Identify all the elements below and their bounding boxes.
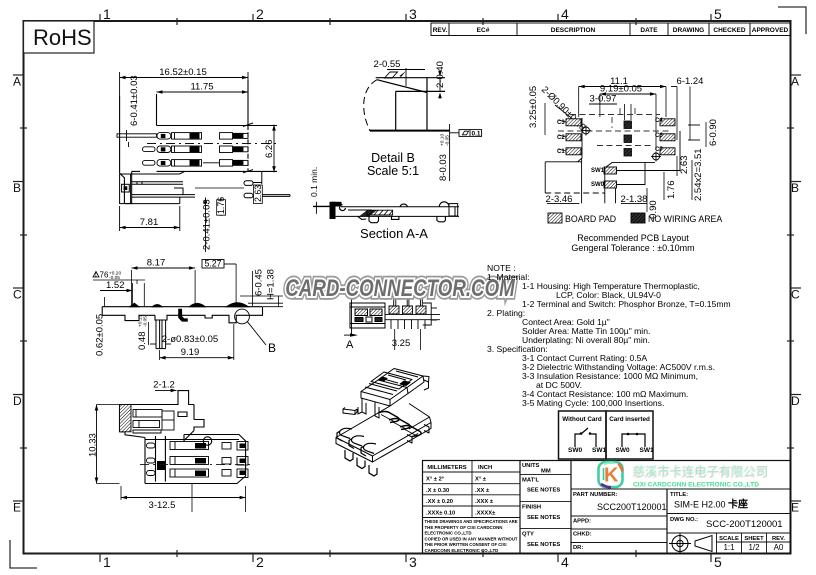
dimension 2-1.2: [153, 380, 176, 393]
svg-text:0.48: 0.48: [137, 332, 148, 351]
dimension 8.17: [132, 258, 196, 307]
svg-text:A: A: [791, 75, 799, 89]
dimension 8-0.03 vertical: [438, 134, 451, 181]
svg-text:2.54x2=3.51: 2.54x2=3.51: [693, 148, 704, 201]
B balloon: [235, 309, 276, 355]
top view left contact row 2: [143, 146, 249, 153]
svg-text:1/2: 1/2: [748, 543, 760, 552]
third angle projection symbol: [669, 534, 712, 554]
detail B label: [367, 151, 419, 178]
dimension 6-1.24: [671, 76, 703, 140]
svg-text:1: 1: [94, 273, 97, 279]
svg-text:Gengeral Tolerance : ±0.10m: Gengeral Tolerance : ±0.10mm: [571, 243, 694, 253]
svg-text:5: 5: [714, 6, 722, 22]
svg-text:-0.05: -0.05: [143, 316, 149, 327]
bottom view body outline: [120, 391, 246, 484]
svg-text:B: B: [791, 181, 799, 195]
svg-text:3.25±0.05: 3.25±0.05: [528, 86, 539, 128]
svg-text:UNITS: UNITS: [522, 463, 540, 469]
svg-text:6-0.90: 6-0.90: [708, 119, 719, 146]
dimension 1.76 boxed: [216, 197, 226, 216]
svg-text:1:1: 1:1: [723, 543, 735, 552]
svg-text:DRAWING: DRAWING: [673, 27, 704, 34]
zone column ticks bottom: [100, 550, 711, 562]
svg-text:3-12.5: 3-12.5: [149, 500, 176, 511]
svg-text:A: A: [346, 339, 354, 351]
svg-text:E: E: [13, 501, 21, 515]
svg-text:INCH: INCH: [478, 465, 492, 471]
end view contacts: [385, 292, 440, 330]
end view housing block: [350, 303, 385, 328]
svg-text:X° ± 2°: X° ± 2°: [426, 477, 445, 483]
svg-text:2.63: 2.63: [253, 185, 263, 202]
svg-text:SIM-E H2.00 卡座: SIM-E H2.00 卡座: [674, 498, 748, 511]
dimension 5.27 boxed: [202, 259, 236, 307]
svg-text:DWG NO.:: DWG NO.:: [670, 517, 698, 523]
isometric housing block: [361, 369, 429, 407]
svg-text:Section A-A: Section A-A: [360, 226, 428, 241]
svg-text:DESCRIPTION: DESCRIPTION: [551, 27, 596, 34]
revision table: [431, 23, 791, 36]
svg-text:B: B: [268, 341, 276, 355]
legal fine print: [425, 519, 518, 553]
svg-text:Scale 5:1: Scale 5:1: [367, 164, 419, 178]
svg-text:Detail B: Detail B: [371, 151, 415, 165]
svg-text:K: K: [604, 465, 619, 487]
dimension 10.33 vertical: [88, 405, 120, 484]
svg-text:CHKD:: CHKD:: [573, 532, 592, 538]
svg-text:4: 4: [561, 554, 569, 570]
svg-text:THE PRIOR WRITTEN CONSENT OF C: THE PRIOR WRITTEN CONSENT OF CIXI: [425, 542, 507, 547]
notes text block: [487, 263, 731, 408]
svg-text:SW0: SW0: [568, 447, 582, 454]
isometric housing feet: [343, 398, 379, 418]
svg-text:RoHS: RoHS: [33, 25, 92, 50]
svg-text:DATE: DATE: [640, 27, 658, 34]
dimension 2.63 boxed: [253, 185, 263, 204]
svg-text:.XXXX±: .XXXX±: [475, 511, 496, 517]
svg-text:C4: C4: [655, 118, 663, 124]
svg-text:-0.05: -0.05: [445, 135, 451, 146]
zone column ticks top: [100, 14, 711, 25]
dimension 2-Ø0.83±0.05: [150, 334, 218, 345]
part number col3: [571, 489, 791, 543]
svg-text:0.1: 0.1: [472, 130, 481, 137]
svg-text:EC#: EC#: [477, 27, 490, 34]
svg-text:2-1.2: 2-1.2: [153, 380, 175, 391]
dimension 0.90 vertical: [647, 188, 659, 222]
svg-text:MM: MM: [541, 469, 551, 475]
svg-text:1-2 Terminal and Switch: Phosp: 1-2 Terminal and Switch: Phosphor Bronze…: [522, 299, 731, 309]
svg-text:THE PROPERTY OF CIXI CARDCONN: THE PROPERTY OF CIXI CARDCONN: [425, 525, 503, 530]
title col4: [667, 514, 791, 554]
front view clip hook: [179, 309, 188, 321]
company logo: [599, 462, 623, 488]
section A-A body: [330, 202, 459, 223]
svg-text:BOARD PAD: BOARD PAD: [565, 214, 616, 224]
svg-text:C: C: [791, 288, 800, 302]
front view top bumps: [130, 303, 248, 307]
svg-text:3-0.97: 3-0.97: [590, 94, 617, 105]
PCB layout caption: [571, 233, 694, 253]
switch symbol without card (open): [575, 428, 596, 447]
svg-text:6-0.45: 6-0.45: [254, 269, 265, 296]
svg-text:DR:: DR:: [573, 545, 583, 551]
PCB pads left column: [557, 119, 581, 155]
svg-text:0.1 min.: 0.1 min.: [309, 167, 319, 197]
svg-text:CIXI CARDCONN ELECTRONIC CO.,L: CIXI CARDCONN ELECTRONIC CO.,LTD: [633, 482, 759, 489]
svg-text:D: D: [791, 394, 800, 408]
dimension 2.54x2=3.51 vertical: [692, 148, 704, 201]
svg-text:1: 1: [103, 6, 111, 22]
dimension 2-0.41±0.03 vertical: [202, 198, 213, 253]
dimension 7.81: [120, 206, 180, 231]
PCB datum circles: [581, 126, 661, 162]
svg-text:MAT'L: MAT'L: [522, 478, 540, 484]
svg-text:0.62±0.05: 0.62±0.05: [95, 314, 106, 356]
bottom view upper-left switch detail: [120, 405, 175, 434]
svg-text:X° ±: X° ±: [475, 477, 487, 483]
zone column labels bottom: [103, 554, 722, 570]
svg-text:SW0: SW0: [616, 447, 630, 454]
zone row labels left: [13, 75, 22, 515]
svg-text:REV.: REV.: [433, 27, 448, 34]
svg-text:E: E: [791, 501, 799, 515]
bottom view centerline: [140, 464, 252, 466]
svg-text:SEE NOTES: SEE NOTES: [527, 488, 560, 494]
svg-text:FINISH: FINISH: [522, 505, 541, 511]
isometric middle contacts: [378, 412, 421, 437]
flatness feature control frame: [450, 124, 482, 181]
dimension 1.52: [100, 280, 144, 306]
dimension 6-0.41±0.03 vertical: [127, 75, 141, 147]
svg-text:ELECTRONIC CO.,LTD: ELECTRONIC CO.,LTD: [425, 531, 472, 536]
svg-text:C: C: [13, 288, 22, 302]
legend board pad: [548, 213, 616, 224]
svg-text:6.26: 6.26: [264, 140, 275, 159]
svg-text:SCC200T120001: SCC200T120001: [597, 502, 667, 512]
dimension 6.26: [264, 125, 276, 173]
svg-text:.XX ± 0.20: .XX ± 0.20: [426, 499, 453, 505]
dimension 3-0.97: [589, 94, 631, 121]
dimension H=1.38 vertical: [240, 269, 283, 307]
svg-text:Without Card: Without Card: [562, 416, 602, 423]
svg-text:1.76: 1.76: [216, 197, 226, 214]
note 0.76 with triangle: [93, 271, 145, 285]
top view left contact row 3: [143, 160, 249, 167]
svg-text:SW1: SW1: [640, 447, 654, 454]
dimension 2-Ø0.90 diagonal: [539, 84, 588, 133]
dimension 2.63 vertical: [677, 156, 690, 177]
svg-text:SCALE: SCALE: [719, 536, 739, 542]
svg-text:1.76: 1.76: [666, 181, 677, 200]
svg-text:.XX ±: .XX ±: [475, 488, 490, 494]
svg-text:MILLIMETERS: MILLIMETERS: [427, 465, 466, 471]
dimension 2-1.38: [621, 194, 648, 205]
dimension 11.1: [579, 76, 666, 117]
top view housing outline: [120, 80, 277, 204]
svg-text:D: D: [13, 394, 22, 408]
title block: [423, 461, 791, 554]
svg-text:3-5 Mating Cycle: 100,000 Inse: 3-5 Mating Cycle: 100,000 Insertions.: [522, 398, 664, 408]
legend no wiring area: [631, 213, 722, 224]
svg-text:7.81: 7.81: [140, 217, 159, 228]
dimension 6-0.90 vertical: [706, 119, 719, 147]
dimension 2-0.40 vertical: [435, 61, 446, 98]
zone column labels top: [103, 6, 722, 22]
dimension 6-0.45 vertical: [253, 269, 265, 306]
dimension 0.62±0.05 vertical: [95, 297, 111, 356]
svg-text:6-1.24: 6-1.24: [677, 76, 704, 87]
units col2: [520, 475, 571, 529]
svg-text:B: B: [13, 181, 21, 195]
svg-text:5: 5: [714, 554, 722, 570]
PCB pads right column: [655, 118, 675, 155]
dimension 16.52±0.15: [120, 67, 248, 96]
svg-text:REV.: REV.: [772, 536, 785, 542]
isometric left fingers: [337, 428, 377, 476]
PCB dashed card outline: [558, 108, 672, 146]
dimension 2-0.55: [374, 59, 425, 86]
svg-text:SW0: SW0: [591, 182, 605, 188]
svg-text:A0: A0: [774, 543, 784, 552]
svg-text:PART NUMBER:: PART NUMBER:: [573, 492, 617, 498]
svg-text:2-0.41±0.03: 2-0.41±0.03: [202, 199, 213, 250]
zone row ticks left: [13, 75, 27, 501]
svg-text:SHEET: SHEET: [744, 536, 764, 542]
svg-text:SEE NOTES: SEE NOTES: [527, 515, 560, 521]
svg-text:6-0.41±0.03: 6-0.41±0.03: [129, 75, 140, 126]
dimension 2-3.46: [546, 194, 580, 205]
svg-text:SCC-200T120001: SCC-200T120001: [706, 519, 783, 530]
svg-text:1.52: 1.52: [106, 280, 125, 291]
svg-text:2-0.55: 2-0.55: [374, 59, 401, 70]
svg-text:4: 4: [561, 6, 569, 22]
svg-text:COPIED OR USED IN ANY MANNER W: COPIED OR USED IN ANY MANNER WITHOUT: [425, 536, 518, 541]
dimension 9.19±0.05: [600, 84, 656, 151]
zone row ticks right: [787, 75, 801, 501]
svg-text:TITLE:: TITLE:: [670, 492, 688, 498]
svg-text:8-0.03: 8-0.03: [438, 154, 449, 181]
svg-text:SEE NOTES: SEE NOTES: [527, 542, 560, 548]
svg-text:.X ± 0.30: .X ± 0.30: [426, 488, 449, 494]
RoHS box: [24, 21, 95, 53]
section hatched block: [359, 210, 393, 216]
PCB SW pads: [591, 167, 617, 188]
svg-text:2. Plating:: 2. Plating:: [487, 308, 525, 318]
svg-text:C6: C6: [655, 133, 663, 139]
svg-text:76: 76: [100, 271, 109, 280]
svg-text:APPD:: APPD:: [573, 519, 591, 525]
dimension 3.25±0.05 vertical: [528, 86, 575, 135]
svg-text:2: 2: [256, 554, 264, 570]
svg-text:5.27: 5.27: [204, 259, 221, 269]
PCB center no-wiring pads: [624, 121, 632, 156]
svg-text:Recommended PCB Layout: Recommended PCB Layout: [577, 233, 689, 243]
dimension 9.19 front: [160, 324, 234, 360]
zone row labels right: [791, 75, 800, 515]
svg-text:11.75: 11.75: [190, 82, 213, 93]
section cutting line A: [344, 292, 358, 351]
svg-text:Card inserted: Card inserted: [609, 416, 650, 423]
svg-text:H=1.38: H=1.38: [266, 269, 277, 300]
svg-text:16.52±0.15: 16.52±0.15: [159, 67, 206, 78]
svg-text:CARDCONN ELECTRONIC CO.,LTD: CARDCONN ELECTRONIC CO.,LTD: [425, 548, 499, 553]
svg-text:2.63: 2.63: [679, 156, 690, 175]
svg-text:.XXX ±: .XXX ±: [475, 499, 494, 505]
svg-text:THESE DRAWINGS AND SPECIFICATI: THESE DRAWINGS AND SPECIFICATIONS ARE: [425, 519, 518, 524]
svg-text:QTY: QTY: [522, 532, 534, 538]
svg-text:2: 2: [256, 6, 264, 22]
isometric lower slab: [336, 404, 431, 463]
svg-text:3: 3: [409, 554, 417, 570]
dimension 3.25 end view: [392, 329, 421, 350]
0.1 min note: [309, 167, 330, 214]
front view body: [102, 307, 262, 323]
dimension 11.75: [157, 82, 249, 94]
dimension 1.76 vertical: [664, 172, 677, 200]
front view pins: [156, 320, 166, 349]
svg-text:.XXX± 0.10: .XXX± 0.10: [426, 511, 455, 517]
dimension 0.48 vertical: [137, 315, 149, 350]
dimension 3-12.5: [121, 484, 246, 513]
svg-text:1: 1: [103, 554, 111, 570]
svg-text:2-ø0.83±0.05: 2-ø0.83±0.05: [162, 334, 218, 345]
watermark CARD-CONNECTOR.COM: [285, 275, 515, 302]
svg-text:SW1: SW1: [592, 447, 606, 454]
svg-text:NO WIRING AREA: NO WIRING AREA: [648, 214, 722, 224]
switch symbol card inserted (closed): [622, 434, 645, 447]
svg-text:SW1: SW1: [591, 168, 605, 174]
PCB solid outline: [545, 118, 700, 203]
switch state boxes: [559, 411, 654, 459]
bottom view contact rows: [147, 442, 249, 478]
top view centerline: [147, 143, 276, 145]
svg-text:APPROVED: APPROVED: [752, 27, 789, 34]
detail B contact tip shape: [364, 72, 450, 131]
svg-text:CARD-CONNECTOR.COM: CARD-CONNECTOR.COM: [285, 275, 515, 302]
top view left contact row 1: [117, 133, 248, 140]
svg-text:慈溪市卡连电子有限公司: 慈溪市卡连电子有限公司: [633, 464, 768, 479]
tolerance table col1: [423, 461, 521, 518]
top view switch area lower block: [120, 171, 290, 203]
svg-text:A: A: [13, 75, 21, 89]
svg-text:9.19: 9.19: [181, 347, 200, 358]
svg-text:CHECKED: CHECKED: [713, 27, 745, 34]
svg-text:8.17: 8.17: [147, 258, 166, 269]
svg-text:3: 3: [409, 6, 417, 22]
